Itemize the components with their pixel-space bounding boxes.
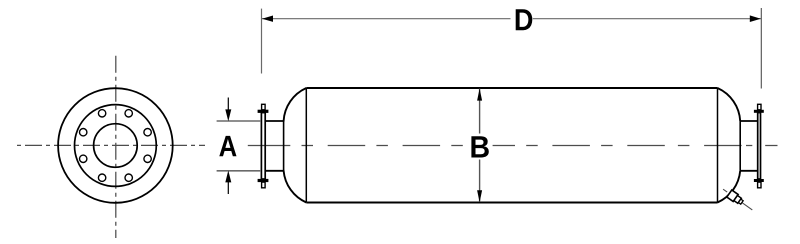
left head top curve	[284, 88, 307, 121]
drain centerline	[723, 189, 752, 210]
bolt hole 4	[80, 129, 87, 136]
left neck bottom	[266, 170, 285, 172]
D label	[516, 9, 533, 30]
right head tangent edge	[739, 121, 741, 171]
left flange bottom nut	[258, 179, 269, 182]
B label	[471, 136, 488, 157]
A extension line top	[217, 120, 261, 122]
A label	[219, 136, 236, 156]
right head seam	[717, 88, 719, 203]
left head seam	[305, 88, 307, 203]
left head bottom curve	[284, 171, 307, 203]
B bottom arrowhead	[477, 190, 482, 202]
bolt hole 2	[125, 110, 132, 117]
right flange plate	[758, 113, 761, 179]
drain coupling body	[727, 190, 738, 202]
right neck bottom	[740, 170, 757, 172]
bolt hole 3	[98, 110, 105, 117]
B top arrowhead	[477, 88, 482, 100]
left head tangent edge	[283, 121, 285, 171]
left flange top stud	[262, 104, 266, 110]
D dimension line right part	[533, 18, 761, 20]
drain plug body	[734, 195, 742, 203]
bore circle	[94, 124, 138, 168]
left flange bottom stud	[262, 182, 266, 188]
A extension line bottom	[217, 170, 261, 172]
shell bottom line	[306, 202, 717, 204]
flange circle	[75, 105, 157, 187]
left neck top	[266, 120, 285, 122]
A bottom arrow stem	[227, 181, 229, 194]
A bottom arrowhead	[225, 171, 231, 183]
D left arrowhead	[262, 16, 273, 22]
bolt hole 6	[98, 174, 105, 181]
B dimension line upper part	[479, 89, 481, 134]
right flange top nut	[754, 110, 764, 113]
D extension line right	[760, 8, 762, 89]
centerline horizontal (end view)	[17, 144, 205, 146]
centerline vertical (end view)	[115, 56, 117, 238]
right head bottom curve	[718, 171, 741, 203]
D right arrowhead	[750, 15, 761, 22]
right flange bottom stud	[758, 182, 761, 188]
bolt hole 1	[144, 129, 151, 136]
D dimension line left part	[262, 18, 511, 20]
left flange plate	[261, 113, 265, 179]
drain plug head	[738, 199, 743, 204]
right head top curve	[718, 88, 741, 121]
right flange top stud	[758, 104, 761, 110]
A top arrow stem	[227, 98, 229, 111]
left flange top nut	[258, 110, 269, 113]
right flange bottom nut	[754, 179, 764, 182]
shell outer circle	[58, 88, 173, 203]
centerline horizontal (side view)	[248, 145, 778, 147]
A top arrowhead	[225, 109, 231, 121]
bolt hole 8	[144, 155, 151, 162]
shell top line	[306, 87, 717, 89]
B dimension line lower part	[479, 160, 481, 203]
bolt hole 5	[80, 155, 87, 162]
bolt hole 7	[125, 174, 132, 181]
D extension line left	[261, 9, 263, 74]
right neck top	[740, 120, 757, 122]
